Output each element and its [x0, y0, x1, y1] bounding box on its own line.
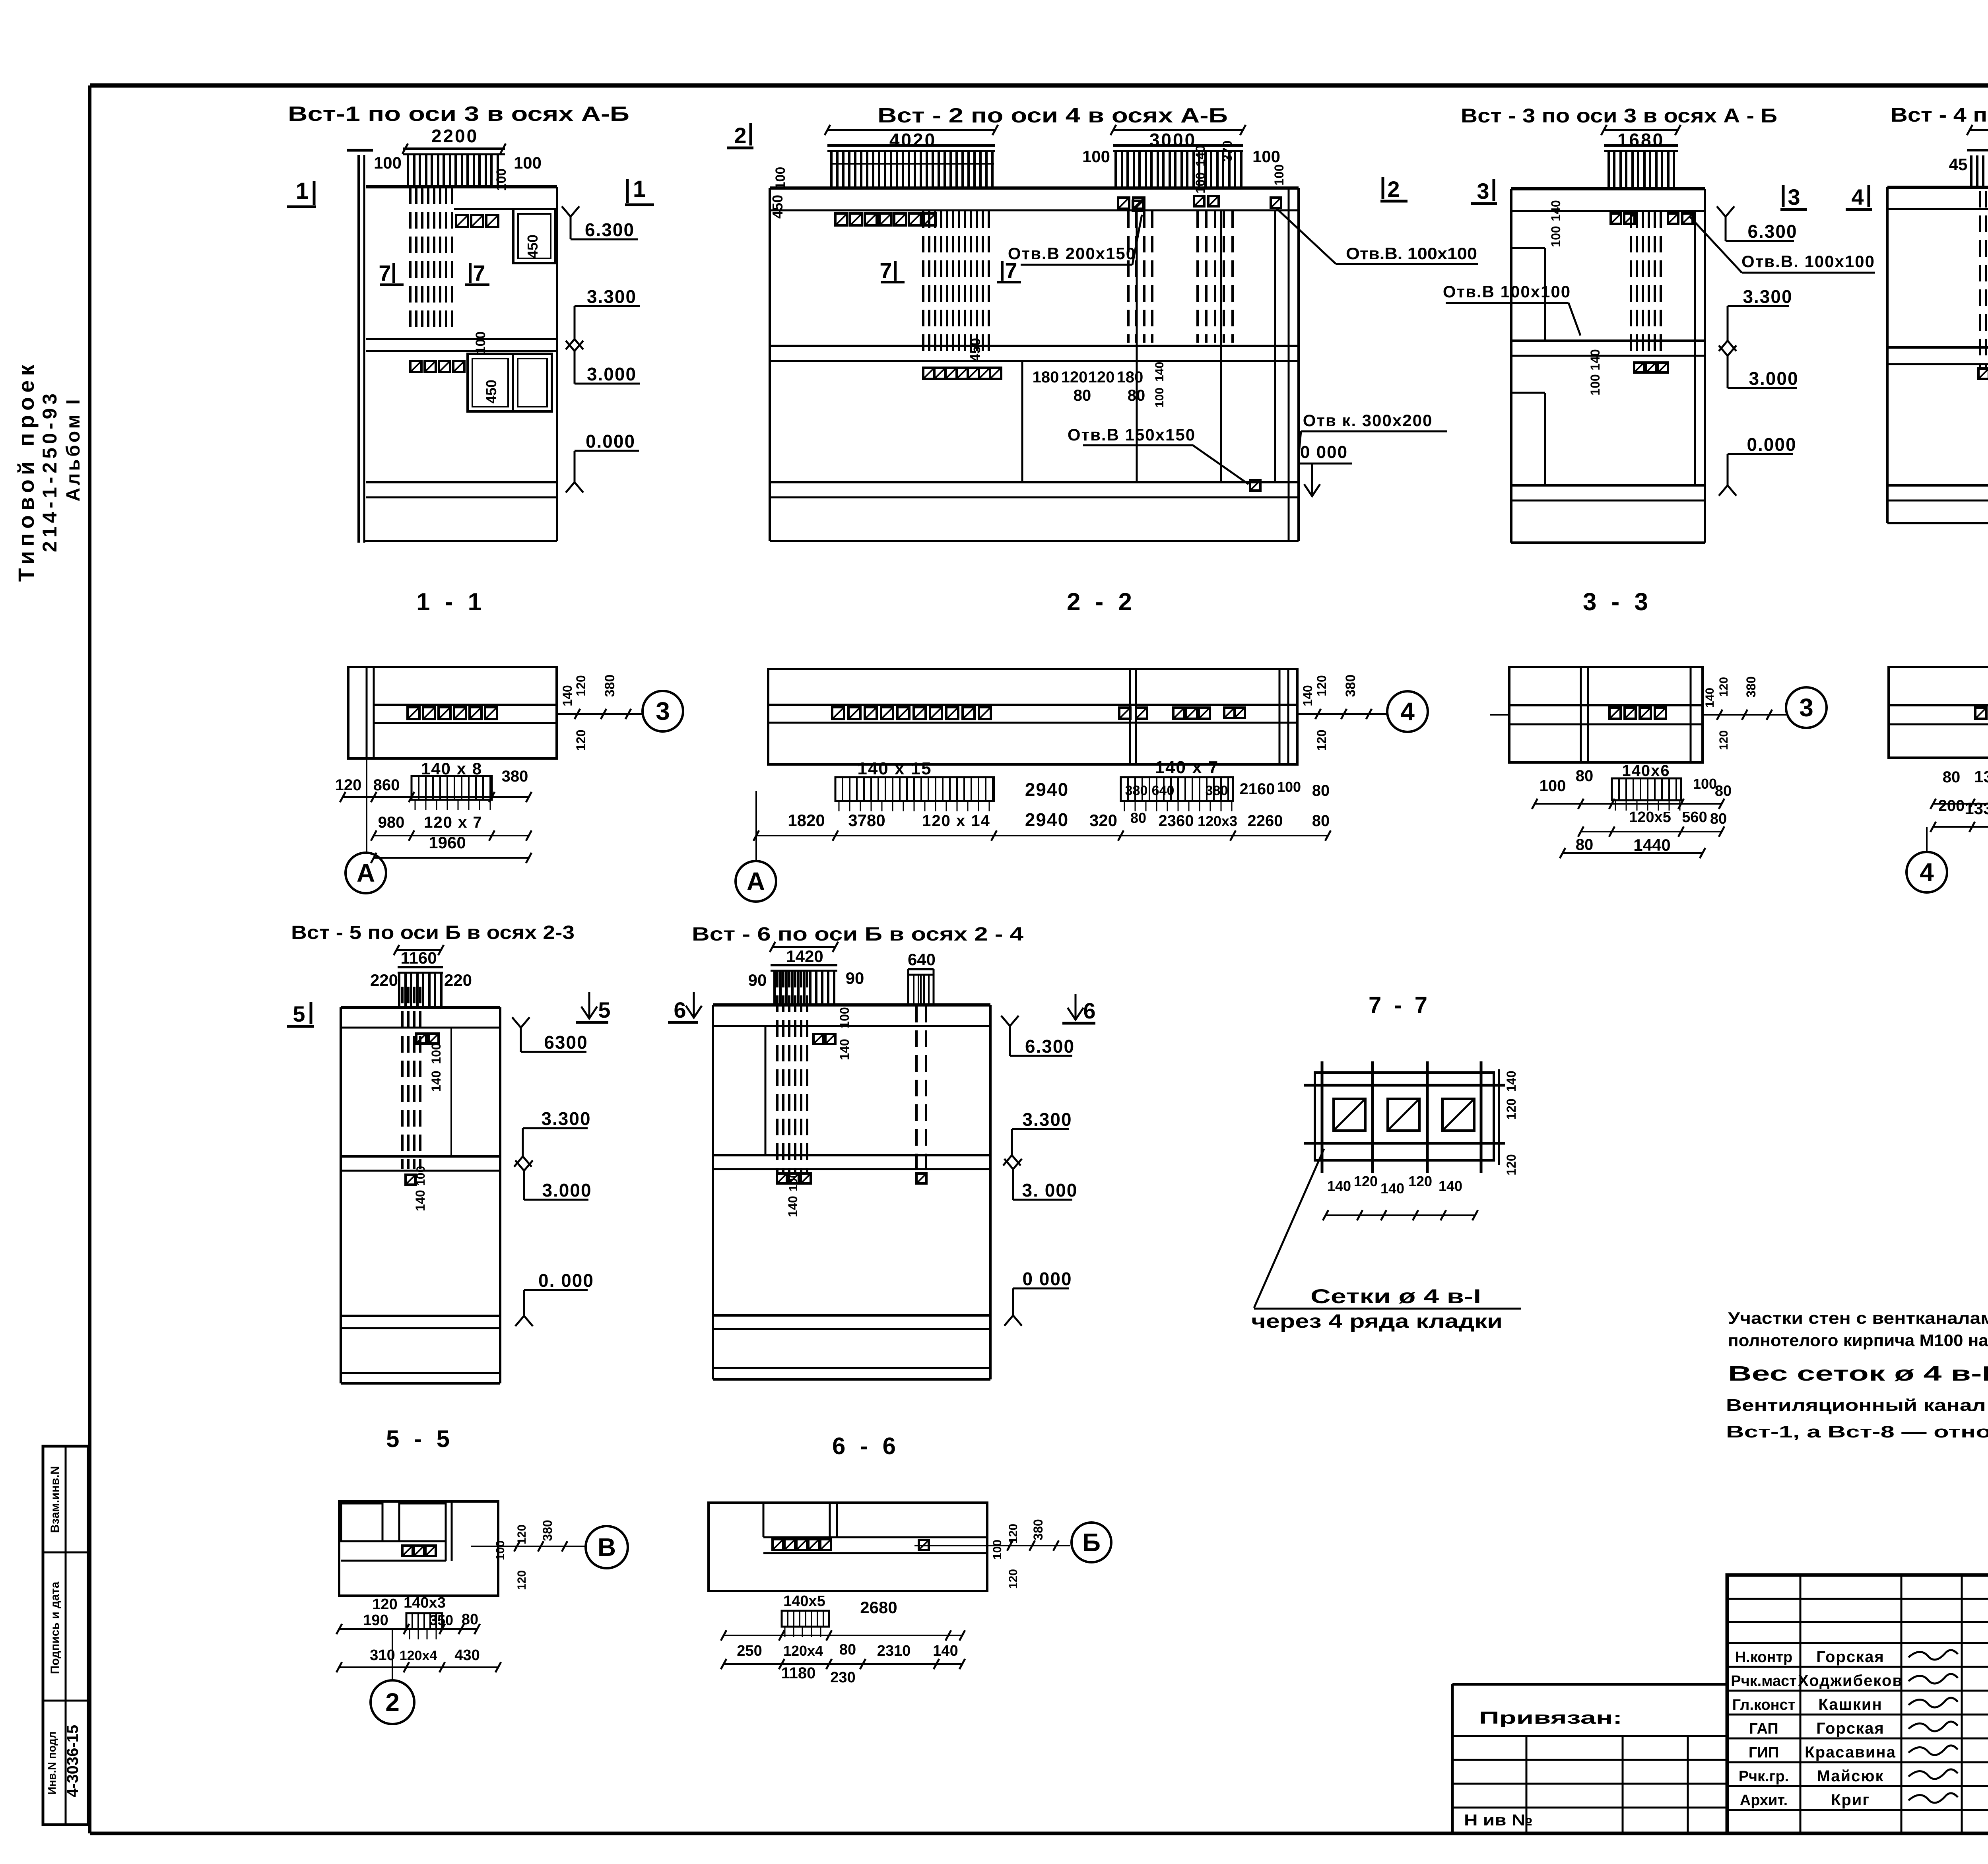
- svg-text:560: 560: [1682, 809, 1707, 826]
- svg-text:2: 2: [734, 123, 746, 148]
- svg-text:220: 220: [370, 971, 398, 989]
- svg-text:100: 100: [1588, 374, 1602, 395]
- svg-text:140: 140: [1193, 145, 1208, 166]
- svg-text:120: 120: [574, 729, 588, 751]
- axis to circle Б row 6-6: [914, 1545, 1070, 1546]
- svg-text:320: 320: [1089, 811, 1117, 830]
- detail 7-7 mesh: [1315, 1073, 1494, 1160]
- svg-text:140: 140: [1549, 200, 1563, 221]
- svg-text:Отв.В. 100х100: Отв.В. 100х100: [1346, 244, 1477, 263]
- svg-text:3: 3: [1799, 693, 1813, 722]
- vent stack right Вст-2: [1113, 144, 1243, 147]
- svg-text:2 - 2: 2 - 2: [1067, 588, 1136, 616]
- axis to circle В: [471, 1546, 586, 1547]
- svg-text:140: 140: [1703, 688, 1716, 708]
- svg-text:120: 120: [1504, 1154, 1518, 1175]
- svg-text:7: 7: [379, 260, 391, 285]
- svg-text:В: В: [598, 1533, 616, 1561]
- svg-text:140х5: 140х5: [783, 1593, 825, 1610]
- svg-text:1960: 1960: [429, 833, 466, 852]
- channel squares below band Вст-2: [923, 368, 934, 379]
- svg-text:45: 45: [1949, 155, 1968, 174]
- svg-text:1330: 1330: [1974, 767, 1988, 786]
- squares 6-6: [773, 1539, 783, 1550]
- svg-text:Альбом I: Альбом I: [63, 397, 84, 501]
- squares Вст-5: [416, 1034, 426, 1044]
- svg-text:0 000: 0 000: [1022, 1269, 1072, 1289]
- svg-text:214-1-250-93: 214-1-250-93: [39, 390, 61, 552]
- axis to circle 4 row2: [1297, 713, 1387, 715]
- dashed channels Вст-2: [923, 211, 989, 358]
- upper notch Вст-3: [1544, 248, 1546, 341]
- svg-text:100: 100: [837, 1007, 852, 1028]
- svg-text:А: А: [747, 867, 765, 896]
- svg-text:120: 120: [1007, 1524, 1020, 1544]
- svg-text:100: 100: [1693, 776, 1717, 792]
- svg-text:3. 000: 3. 000: [1022, 1180, 1078, 1201]
- svg-text:3.300: 3.300: [1022, 1109, 1072, 1130]
- privyazan table: [1452, 1683, 1727, 1686]
- svg-text:6: 6: [1083, 998, 1095, 1023]
- svg-text:100: 100: [494, 169, 509, 191]
- svg-text:6.300: 6.300: [1747, 221, 1797, 242]
- squares Вст-3: [1611, 213, 1621, 224]
- channel squares row left Вст-2: [835, 213, 847, 225]
- svg-text:2310: 2310: [877, 1643, 911, 1659]
- svg-text:450: 450: [524, 235, 541, 258]
- section mark 5 right: [588, 992, 590, 1018]
- svg-text:190: 190: [363, 1612, 388, 1629]
- svg-text:120 х 7: 120 х 7: [424, 814, 482, 831]
- wall Вст-1: [357, 155, 360, 543]
- svg-text:120х5: 120х5: [1629, 809, 1671, 826]
- svg-text:100: 100: [1549, 226, 1563, 247]
- svg-text:2360: 2360: [1159, 812, 1194, 830]
- svg-text:90: 90: [846, 969, 864, 987]
- svg-text:100: 100: [991, 1540, 1004, 1559]
- svg-text:3780: 3780: [848, 811, 885, 830]
- svg-text:6.300: 6.300: [585, 219, 635, 240]
- svg-text:1: 1: [296, 178, 309, 204]
- svg-text:6300: 6300: [544, 1032, 588, 1053]
- svg-text:Криг: Криг: [1831, 1791, 1870, 1809]
- dim 2200 Вст-1: [405, 148, 503, 149]
- svg-text:640: 640: [1152, 783, 1175, 798]
- svg-text:100: 100: [494, 1540, 507, 1560]
- svg-text:120: 120: [1088, 369, 1115, 386]
- svg-text:3.300: 3.300: [541, 1108, 591, 1129]
- svg-text:380: 380: [1343, 675, 1358, 697]
- svg-text:450: 450: [483, 380, 499, 403]
- vent stack left Вст-6: [771, 964, 837, 966]
- sheet frame: [90, 83, 1988, 88]
- squares Вст-6: [813, 1034, 823, 1044]
- svg-text:Гл.конст: Гл.конст: [1732, 1697, 1796, 1713]
- svg-text:860: 860: [373, 776, 400, 794]
- section mark 6 right: [1075, 994, 1077, 1020]
- svg-text:Вст - 2 по оси 4 в осях А-: Вст - 2 по оси 4 в осях А-Б: [878, 104, 1228, 127]
- svg-text:140: 140: [786, 1196, 800, 1217]
- svg-text:5: 5: [598, 997, 610, 1022]
- svg-text:3: 3: [1477, 178, 1489, 204]
- svg-text:Горская: Горская: [1816, 1720, 1884, 1737]
- dim 1160 Вст-5: [396, 949, 441, 951]
- svg-text:1 - 1: 1 - 1: [416, 588, 485, 616]
- svg-text:120: 120: [1504, 1098, 1518, 1119]
- svg-text:380: 380: [1744, 676, 1758, 697]
- svg-text:140х6: 140х6: [1622, 762, 1670, 780]
- svg-text:380: 380: [1031, 1519, 1045, 1540]
- svg-text:Вст - 5 по оси Б в осях 2-3: Вст - 5 по оси Б в осях 2-3: [291, 922, 575, 943]
- dim 3110 Вст-4: [1970, 129, 1988, 131]
- svg-text:80: 80: [1312, 812, 1330, 830]
- detail right dims: [1498, 1069, 1500, 1165]
- svg-text:100: 100: [1252, 147, 1280, 166]
- svg-text:230: 230: [830, 1669, 855, 1686]
- svg-text:Привязан:: Привязан:: [1479, 1708, 1622, 1728]
- svg-text:Рчк.маст: Рчк.маст: [1731, 1673, 1796, 1689]
- svg-text:350: 350: [429, 1612, 453, 1628]
- svg-text:120: 120: [1717, 677, 1730, 697]
- svg-text:Архит.: Архит.: [1740, 1792, 1788, 1809]
- svg-text:80: 80: [839, 1641, 856, 1658]
- svg-text:6 - 6: 6 - 6: [832, 1433, 900, 1459]
- svg-text:100: 100: [787, 1172, 800, 1191]
- svg-text:120: 120: [574, 675, 588, 696]
- dashed channels Вст-5: [402, 987, 420, 1169]
- vent stack left Вст-2: [827, 144, 995, 147]
- detail squares: [1334, 1099, 1365, 1131]
- svg-text:Отв к. 300х200: Отв к. 300х200: [1303, 411, 1433, 430]
- svg-text:0. 000: 0. 000: [538, 1270, 594, 1291]
- svg-text:0.000: 0.000: [1747, 434, 1796, 455]
- svg-text:450: 450: [967, 338, 983, 362]
- svg-text:2940: 2940: [1025, 779, 1069, 800]
- svg-text:Ходжибеков: Ходжибеков: [1798, 1672, 1903, 1689]
- svg-text:Н.контр: Н.контр: [1735, 1649, 1793, 1666]
- svg-text:120: 120: [1408, 1173, 1432, 1189]
- svg-text:250: 250: [737, 1643, 762, 1659]
- callout line and note: [1254, 1149, 1324, 1308]
- svg-text:140: 140: [1380, 1180, 1404, 1197]
- svg-text:ГАП: ГАП: [1749, 1720, 1778, 1737]
- axis circle 3 row1: [643, 691, 683, 731]
- svg-text:80: 80: [1074, 387, 1091, 404]
- svg-text:5 - 5: 5 - 5: [386, 1426, 454, 1452]
- svg-text:140: 140: [413, 1190, 427, 1211]
- bottom-left inventory box: [43, 1446, 88, 1825]
- svg-text:310: 310: [370, 1647, 395, 1664]
- svg-text:140: 140: [560, 685, 575, 706]
- svg-text:3.300: 3.300: [1743, 286, 1792, 307]
- svg-text:Вст-1 по оси 3 в осях А-Б: Вст-1 по оси 3 в осях А-Б: [288, 103, 629, 126]
- svg-text:Б: Б: [1082, 1528, 1101, 1557]
- svg-text:120: 120: [1007, 1569, 1020, 1589]
- dashed channels Вст-1: [410, 187, 452, 329]
- svg-text:А: А: [357, 859, 375, 887]
- svg-text:220: 220: [444, 971, 472, 989]
- svg-text:120: 120: [515, 1570, 528, 1590]
- dashed channels Вст-4: [1980, 191, 1988, 368]
- svg-text:100: 100: [1540, 777, 1566, 795]
- level 6.300 Вст-1: [562, 206, 579, 217]
- svg-text:140: 140: [1327, 1178, 1351, 1194]
- svg-text:100: 100: [429, 1043, 443, 1064]
- svg-text:3.000: 3.000: [1749, 368, 1798, 389]
- svg-text:140: 140: [429, 1071, 443, 1092]
- svg-text:Майсюк: Майсюк: [1817, 1767, 1884, 1785]
- svg-text:180: 180: [1033, 369, 1059, 386]
- svg-text:Участки стен с вентканалами вы: Участки стен с вентканалами выполнять из…: [1728, 1309, 1988, 1327]
- svg-text:4: 4: [1851, 184, 1864, 209]
- svg-text:1160: 1160: [400, 948, 437, 967]
- svg-text:80: 80: [1715, 783, 1732, 799]
- title block table: [1727, 1575, 1988, 1833]
- svg-text:через 4 ряда кладки: через 4 ряда кладки: [1251, 1311, 1503, 1332]
- svg-text:100: 100: [1193, 172, 1208, 193]
- svg-text:2: 2: [1387, 177, 1400, 202]
- svg-text:2200: 2200: [431, 126, 478, 146]
- svg-text:3.300: 3.300: [587, 286, 637, 307]
- svg-text:3 - 3: 3 - 3: [1583, 588, 1652, 616]
- svg-text:Красавина: Красавина: [1805, 1744, 1896, 1761]
- svg-text:1420: 1420: [786, 947, 823, 966]
- squares row 1-1: [408, 707, 419, 719]
- svg-text:140 х 15: 140 х 15: [857, 759, 932, 778]
- squares 5-5: [402, 1546, 413, 1556]
- svg-text:Типовой проек: Типовой проек: [14, 361, 39, 582]
- svg-text:640: 640: [908, 950, 936, 969]
- plan section 2-2: [768, 669, 1297, 764]
- svg-text:Вст - 4 по оси Б в осях 4: Вст - 4 по оси Б в осях 4 - 5: [1891, 104, 1988, 126]
- svg-text:Взам.инв.N: Взам.инв.N: [49, 1466, 62, 1533]
- vent stack Вст-3: [1604, 144, 1678, 147]
- wall Вст-5: [341, 1006, 500, 1009]
- squares row 2-2: [832, 707, 844, 719]
- vent stack Вст-5: [398, 966, 443, 968]
- svg-text:200: 200: [1938, 797, 1965, 815]
- axis circle 4 row4: [1926, 827, 1928, 851]
- dim 4020 Вст-2: [827, 129, 995, 131]
- svg-text:7: 7: [473, 260, 485, 285]
- svg-text:120: 120: [515, 1525, 528, 1544]
- svg-text:100: 100: [773, 167, 788, 190]
- svg-text:140: 140: [1439, 1178, 1462, 1194]
- squares row 4-4: [1975, 708, 1986, 719]
- svg-text:5: 5: [293, 1001, 305, 1026]
- svg-text:80: 80: [1943, 768, 1961, 786]
- vent stack Вст-1: [403, 147, 505, 150]
- svg-text:Сетки ø 4 в-I: Сетки ø 4 в-I: [1310, 1285, 1481, 1307]
- signatures: [1908, 1650, 1958, 1660]
- svg-text:1820: 1820: [788, 811, 825, 830]
- svg-text:Вст - 3 по оси 3 в осях А: Вст - 3 по оси 3 в осях А - Б: [1461, 105, 1777, 127]
- svg-text:430: 430: [454, 1647, 480, 1664]
- svg-text:380: 380: [502, 768, 528, 785]
- wall Вст-3: [1511, 187, 1705, 190]
- svg-text:370: 370: [1220, 140, 1235, 161]
- level 0.000 Вст-1: [566, 482, 583, 493]
- plan section 4-4: [1889, 667, 1988, 758]
- svg-text:120х3: 120х3: [1198, 813, 1237, 829]
- svg-text:120: 120: [1354, 1173, 1378, 1189]
- svg-text:4020: 4020: [889, 130, 936, 150]
- svg-text:120 х 14: 120 х 14: [922, 812, 990, 830]
- svg-text:7: 7: [879, 258, 892, 283]
- svg-text:2: 2: [385, 1688, 400, 1717]
- svg-text:120х4: 120х4: [783, 1643, 823, 1659]
- svg-text:140: 140: [1301, 685, 1315, 706]
- channel squares right Вст-2: [1118, 198, 1129, 209]
- dim 3000 Вст-2: [1113, 129, 1243, 131]
- svg-text:Горская: Горская: [1816, 1648, 1884, 1666]
- svg-text:980: 980: [378, 814, 405, 831]
- svg-text:0 000: 0 000: [1300, 442, 1348, 462]
- svg-text:120: 120: [1061, 369, 1088, 386]
- svg-text:3: 3: [656, 697, 670, 725]
- svg-text:Вст - 6 по оси Б в осях: Вст - 6 по оси Б в осях 2 - 4: [692, 924, 1023, 945]
- svg-text:120: 120: [1717, 730, 1730, 750]
- svg-text:6.300: 6.300: [1025, 1036, 1075, 1057]
- squares row 3-3: [1609, 708, 1621, 719]
- levels Вст-3: [1717, 206, 1734, 217]
- svg-text:120: 120: [1314, 729, 1329, 751]
- svg-text:100: 100: [1153, 388, 1166, 407]
- svg-text:140: 140: [933, 1643, 958, 1659]
- axis to circle 3 row3: [1490, 714, 1509, 716]
- dashed channels Вст-6: [777, 971, 807, 1173]
- svg-text:2680: 2680: [860, 1598, 897, 1617]
- svg-text:140: 140: [1504, 1071, 1518, 1092]
- svg-text:80: 80: [1576, 836, 1594, 853]
- hole 450 upper Вст-1: [513, 209, 555, 263]
- svg-text:6: 6: [674, 997, 686, 1022]
- svg-text:Вес сеток ø 4 в-I - 15 кг.: Вес сеток ø 4 в-I - 15 кг.: [1728, 1362, 1988, 1385]
- svg-text:ГИП: ГИП: [1749, 1744, 1779, 1761]
- svg-text:140х3: 140х3: [404, 1594, 446, 1611]
- svg-text:380: 380: [602, 675, 617, 697]
- svg-text:120х4: 120х4: [400, 1648, 437, 1663]
- channel squares lower Вст-1: [410, 361, 421, 372]
- svg-text:140 х 7: 140 х 7: [1155, 758, 1219, 777]
- plan section 5-5: [339, 1501, 498, 1596]
- plan section 1-1: [348, 667, 557, 758]
- axis line to circle 3: [557, 713, 643, 715]
- wall Вст-4: [1887, 186, 1988, 189]
- svg-text:450: 450: [769, 195, 786, 219]
- svg-text:4: 4: [1920, 858, 1934, 886]
- svg-text:120: 120: [372, 1596, 397, 1613]
- svg-text:Подпись и дата: Подпись и дата: [49, 1581, 62, 1674]
- svg-text:Вентиляционный канал Вст-7 п: Вентиляционный канал Вст-7 принимать зер…: [1726, 1396, 1988, 1414]
- svg-text:100: 100: [473, 332, 488, 354]
- svg-text:1330: 1330: [1965, 799, 1988, 818]
- svg-text:80: 80: [1710, 811, 1727, 827]
- svg-text:100: 100: [1272, 164, 1286, 185]
- svg-text:380: 380: [540, 1520, 555, 1541]
- svg-text:1: 1: [633, 176, 646, 202]
- svg-text:80: 80: [1130, 810, 1146, 826]
- svg-text:140: 140: [1153, 362, 1166, 382]
- svg-text:1680: 1680: [1617, 130, 1664, 150]
- wall Вст-6: [713, 1003, 990, 1007]
- svg-text:2940: 2940: [1025, 809, 1069, 830]
- level 3.000 Вст-1: [566, 341, 583, 351]
- svg-text:Отв.В 100х100: Отв.В 100х100: [1443, 282, 1571, 301]
- svg-text:Рчк.гр.: Рчк.гр.: [1739, 1768, 1789, 1785]
- svg-text:100: 100: [374, 153, 402, 172]
- svg-text:80: 80: [1312, 782, 1330, 799]
- svg-text:120: 120: [1314, 675, 1329, 696]
- level 3.300 Вст-1: [566, 339, 583, 349]
- svg-text:0.000: 0.000: [586, 431, 635, 452]
- svg-text:1180: 1180: [781, 1664, 816, 1682]
- vent stacks Вст-4: [1967, 149, 1988, 151]
- svg-text:3.000: 3.000: [542, 1180, 592, 1201]
- svg-text:Отв.В 200х150: Отв.В 200х150: [1008, 244, 1136, 263]
- svg-text:80: 80: [1128, 387, 1145, 404]
- levels Вст-5: [512, 1017, 530, 1028]
- wall Вст-2: [770, 186, 1299, 190]
- axis circle 2: [392, 1629, 393, 1681]
- svg-text:Инв.N подл: Инв.N подл: [46, 1731, 58, 1794]
- svg-text:Отв.В. 100х100: Отв.В. 100х100: [1741, 252, 1875, 271]
- dim 1420 Вст-6: [773, 946, 835, 948]
- svg-text:3.000: 3.000: [587, 364, 637, 384]
- svg-text:4: 4: [1400, 697, 1415, 726]
- svg-text:Н ив №: Н ив №: [1464, 1812, 1533, 1829]
- svg-text:100: 100: [514, 153, 542, 172]
- svg-text:3: 3: [1788, 184, 1800, 209]
- svg-text:140: 140: [1588, 349, 1602, 370]
- svg-text:120: 120: [335, 776, 362, 794]
- svg-text:Отв.В 150х150: Отв.В 150х150: [1068, 425, 1196, 444]
- svg-text:380: 380: [1125, 783, 1148, 798]
- channel squares upper Вст-1: [456, 215, 468, 227]
- svg-text:полнотелого кирпича М100 на: полнотелого кирпича М100 на растворе М 5…: [1728, 1331, 1988, 1350]
- axis circle A row1: [366, 758, 367, 853]
- axis circle A row2: [755, 791, 757, 860]
- dashed channels Вст-3: [1631, 211, 1661, 358]
- svg-text:7 - 7: 7 - 7: [1369, 992, 1431, 1018]
- plan section 3-3: [1509, 667, 1703, 762]
- lower notch Вст-3: [1544, 393, 1546, 485]
- window lower Вст-1: [468, 354, 552, 411]
- levels Вст-6: [1001, 1016, 1019, 1026]
- svg-text:Вст-1, а Вст-8 — относительн: Вст-1, а Вст-8 — относительно Вст-3.: [1726, 1422, 1988, 1441]
- svg-text:380: 380: [1206, 783, 1228, 798]
- dashed channels right Вст-2: [1128, 211, 1152, 343]
- svg-text:4-3036-15: 4-3036-15: [64, 1725, 82, 1797]
- svg-text:140: 140: [837, 1039, 852, 1060]
- svg-text:100: 100: [1082, 147, 1110, 166]
- plan section 6-6: [709, 1503, 987, 1591]
- svg-text:2260: 2260: [1248, 812, 1283, 830]
- svg-text:100: 100: [414, 1166, 427, 1186]
- svg-text:2160: 2160: [1240, 780, 1275, 798]
- svg-text:90: 90: [748, 971, 767, 989]
- svg-text:3000: 3000: [1149, 130, 1196, 150]
- svg-text:100: 100: [1277, 779, 1301, 795]
- svg-text:180: 180: [1117, 369, 1143, 386]
- svg-text:80: 80: [1576, 767, 1594, 785]
- svg-text:Кашкин: Кашкин: [1818, 1696, 1882, 1713]
- dim 1680 Вст-3: [1604, 129, 1678, 131]
- svg-text:1440: 1440: [1633, 836, 1670, 854]
